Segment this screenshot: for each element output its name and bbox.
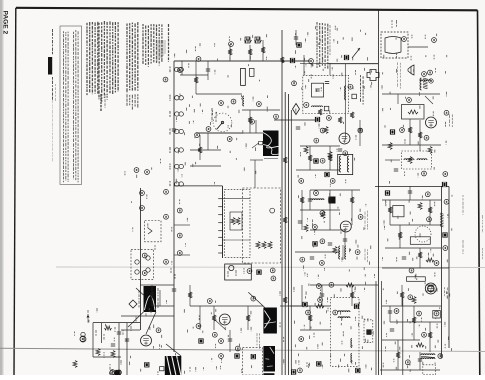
svg-text:PAGE 2: PAGE 2 [2, 11, 9, 35]
